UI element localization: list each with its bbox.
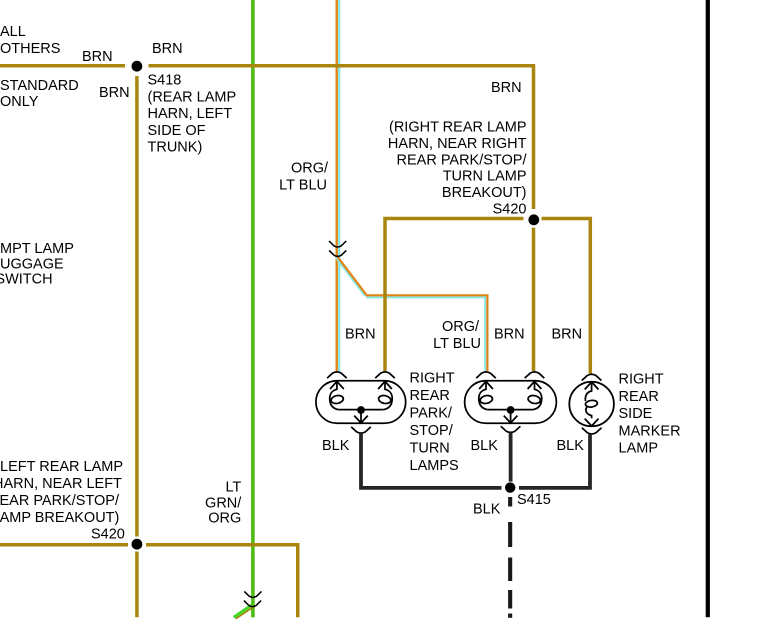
lamp F ground pin shaft and arrow	[510, 410, 512, 422]
label ORG/LT BLU above lamp F left terminal	[433, 319, 481, 352]
svg-text:BREAKOUT): BREAKOUT)	[442, 185, 527, 201]
wire ORG/LT BLU branch diagonal (lt blue stripe)	[336, 258, 365, 297]
svg-text:SIDE OF: SIDE OF	[148, 123, 206, 139]
node S420 left junction dot	[132, 539, 143, 550]
wire LT GRN/ORG diagonal breakout (green stripe)	[234, 605, 253, 618]
wire ORG/LT BLU branch horizontal+down (lt blue stripe)	[366, 297, 485, 371]
wire BLK ground bus right of S415 up to lamp G	[519, 434, 590, 488]
lamp G bottom cup connector	[582, 428, 602, 434]
svg-text:STOP/: STOP/	[410, 423, 454, 439]
svg-text:RIGHT: RIGHT	[619, 372, 664, 388]
lamp F left bulb filament hook	[479, 381, 488, 409]
svg-text:REAR PARK/STOP/: REAR PARK/STOP/	[397, 152, 528, 168]
lamp G filament hook upper	[585, 382, 591, 401]
svg-text:ORG/: ORG/	[291, 161, 329, 177]
svg-text:TURN: TURN	[410, 441, 450, 457]
lamp F left bulb	[479, 394, 493, 404]
svg-text:S420: S420	[493, 202, 527, 218]
svg-text:LAMP BREAKOUT): LAMP BREAKOUT)	[0, 510, 119, 526]
lamp F left pin arrow	[479, 381, 493, 389]
svg-text:RIGHT: RIGHT	[410, 371, 455, 387]
wire BRN S420 right breakout to side marker	[542, 219, 591, 374]
svg-text:SWITCH: SWITCH	[0, 272, 53, 288]
page border right	[706, 0, 710, 617]
lamp E left bulb	[330, 394, 344, 404]
wire ORG/LT BLU vertical (lt blue stripe)	[338, 0, 340, 372]
lamp F right bulb filament hook	[533, 381, 542, 409]
svg-text:BLK: BLK	[322, 438, 350, 454]
lamp E left pin arrow	[330, 381, 344, 389]
lamp E left bulb filament hook	[330, 381, 339, 409]
svg-text:LT BLU: LT BLU	[433, 336, 481, 352]
svg-text:S418: S418	[148, 73, 182, 89]
svg-text:LAMPS: LAMPS	[410, 458, 459, 474]
svg-text:MARKER: MARKER	[619, 423, 681, 439]
wire BRN trunk horizontal top and right drop to lamp F right terminal	[0, 64, 125, 68]
wire BLK ground lamp F to S415	[509, 433, 513, 482]
lamp E inner bottom bus	[338, 409, 384, 411]
svg-text:S420: S420	[91, 527, 125, 543]
svg-text:BRN: BRN	[152, 41, 183, 57]
svg-text:SIDE: SIDE	[619, 406, 653, 422]
svg-text:S415: S415	[517, 492, 551, 508]
wire BRN from S420 junction down to lamp F right terminal	[532, 228, 536, 371]
svg-text:BRN: BRN	[552, 327, 583, 343]
lamp G pin arrow up	[585, 382, 599, 390]
svg-text:BLK: BLK	[557, 438, 585, 454]
svg-text:BRN: BRN	[99, 85, 130, 101]
lamp G ground pin arrow down	[585, 419, 599, 426]
svg-text:ORG: ORG	[208, 511, 241, 527]
wire BLK dashed off-page below S415	[508, 497, 512, 618]
node S420 right junction dot	[528, 214, 539, 225]
lamp F inner junction dot	[507, 406, 515, 414]
svg-text:TRUNK): TRUNK)	[148, 140, 203, 156]
svg-text:ONLY: ONLY	[0, 94, 39, 110]
lamp E: right rear park/stop/turn lamp 1 (outer stadium)	[316, 372, 406, 423]
wire LT GRN/ORG diagonal breakout (orange stripe)	[236, 606, 255, 619]
svg-text:HARN, LEFT: HARN, LEFT	[148, 106, 233, 122]
svg-text:(RIGHT REAR LAMP: (RIGHT REAR LAMP	[389, 120, 527, 136]
svg-text:PARK/: PARK/	[410, 406, 453, 422]
wire ORG/LT BLU vertical to lamp E left terminal (orange stripe)	[336, 0, 338, 372]
node S415 junction dot	[505, 482, 515, 492]
lamp E ground pin shaft and arrow	[360, 410, 362, 422]
svg-text:LEFT REAR LAMP: LEFT REAR LAMP	[0, 459, 123, 475]
svg-text:LT BLU: LT BLU	[279, 178, 327, 194]
wire BRN S420 left breakout horizontal and drop	[0, 543, 128, 547]
lamp F inner bottom bus	[487, 409, 533, 411]
svg-text:BLK: BLK	[471, 438, 499, 454]
svg-text:STANDARD: STANDARD	[0, 78, 79, 94]
wire ORG/LT BLU branch diagonal (orange stripe)	[337, 256, 366, 295]
svg-text:HARN, NEAR LEFT: HARN, NEAR LEFT	[0, 476, 122, 492]
wire BRN S420 right breakout: lamp E right up, across, down to side marker	[385, 219, 524, 372]
svg-text:BLK: BLK	[473, 502, 501, 518]
lamp F bottom cup connector	[501, 426, 521, 432]
svg-text:BRN: BRN	[494, 327, 525, 343]
lamp G top bracket	[582, 374, 602, 380]
svg-text:LAMP: LAMP	[619, 441, 659, 457]
label LT GRN/ORG	[205, 480, 242, 527]
lamp E top bracket right terminal	[375, 372, 395, 378]
wire BRN S420 left horizontal right segment and drop	[146, 545, 298, 618]
label right S420 callout	[388, 120, 528, 218]
svg-text:REAR: REAR	[619, 389, 659, 405]
lamp F top bracket left terminal	[476, 372, 496, 378]
svg-text:REAR: REAR	[410, 388, 450, 404]
label ORG/LT BLU upper	[279, 161, 329, 194]
connector breakout arcs on ORG/LT BLU wire	[329, 241, 346, 256]
wire BRN trunk horizontal right of S418 with corner down	[149, 66, 534, 209]
svg-text:LT: LT	[225, 480, 241, 496]
lamp E bottom cup connector	[351, 427, 371, 433]
lamp E right bulb filament hook	[384, 381, 393, 409]
lamp E top bracket left terminal	[327, 372, 347, 378]
svg-text:MPT LAMP: MPT LAMP	[0, 241, 74, 257]
lamp F top bracket right terminal	[525, 372, 545, 378]
lamp E right pin arrow	[378, 381, 392, 389]
lamp G: right rear side marker lamp (outer circle)	[569, 374, 614, 426]
lamp G bulb	[585, 400, 598, 408]
lamp G filament hook lower	[586, 406, 592, 418]
svg-text:GRN/: GRN/	[205, 496, 242, 512]
connector breakout arcs on LT GRN wire	[244, 591, 262, 606]
node S418 junction dot	[132, 61, 143, 72]
wire LT GRN vertical	[251, 0, 255, 617]
wire ORG/LT BLU branch horizontal+down (orange stripe)	[366, 295, 487, 371]
svg-text:BRN: BRN	[491, 80, 522, 96]
wire BRN below S420 left junction	[135, 552, 139, 618]
lamp F right pin arrow	[528, 381, 542, 389]
lamp F: right rear park/stop/turn lamp 2 (outer stadium)	[465, 372, 557, 423]
svg-text:BRN: BRN	[345, 327, 376, 343]
svg-text:UGGAGE: UGGAGE	[0, 257, 64, 273]
wire BLK ground lamp E down, bus across, up to lamp G	[361, 433, 502, 488]
svg-text:HARN, NEAR RIGHT: HARN, NEAR RIGHT	[388, 136, 527, 152]
svg-text:ALL: ALL	[0, 24, 26, 40]
lamp F right bulb	[527, 394, 541, 404]
svg-text:REAR PARK/STOP/: REAR PARK/STOP/	[0, 493, 120, 509]
svg-text:(REAR LAMP: (REAR LAMP	[148, 89, 237, 105]
svg-text:BRN: BRN	[82, 49, 113, 65]
lamp E right bulb	[378, 394, 392, 404]
svg-text:TURN LAMP: TURN LAMP	[443, 169, 527, 185]
lamp E inner junction dot	[357, 406, 365, 414]
wire BRN S418 vertical left	[135, 76, 139, 537]
svg-text:OTHERS: OTHERS	[0, 41, 60, 57]
svg-text:ORG/: ORG/	[442, 319, 480, 335]
